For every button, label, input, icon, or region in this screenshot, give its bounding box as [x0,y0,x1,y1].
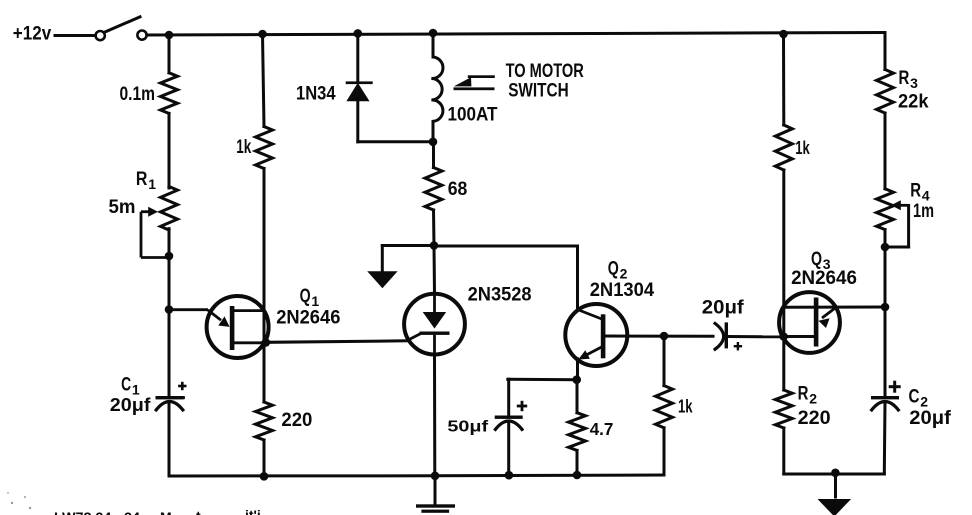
svg-text:LW78 24 - 24: LW78 24 - 24 [54,509,140,515]
svg-text:1N34: 1N34 [296,83,336,105]
svg-text:20μf: 20μf [909,407,951,429]
svg-text:R: R [910,180,921,202]
svg-text:2N3528: 2N3528 [468,284,532,306]
svg-text:100AT: 100AT [448,104,498,126]
svg-text:220: 220 [281,409,312,431]
svg-text:1k: 1k [795,138,810,158]
svg-text:SWITCH: SWITCH [508,79,569,101]
svg-text:1m: 1m [913,200,934,222]
svg-text:it'i: it'i [245,507,261,515]
svg-text:4.7: 4.7 [590,419,614,439]
svg-text:220: 220 [798,407,831,429]
svg-text:2: 2 [809,391,817,407]
svg-text:50μf: 50μf [447,419,489,436]
svg-text:1: 1 [148,176,156,192]
svg-text:1k: 1k [678,397,693,417]
svg-text:R: R [899,67,910,89]
svg-text:0.1m: 0.1m [120,83,156,105]
svg-text:3: 3 [910,75,918,91]
svg-text:t.: t. [196,508,205,515]
svg-text:C: C [121,374,131,396]
svg-text:R: R [136,168,148,190]
svg-text:68: 68 [448,178,468,200]
svg-text:20μf: 20μf [702,297,744,319]
svg-text:Q: Q [300,285,311,307]
svg-text:+12v: +12v [13,23,52,45]
svg-text:2N1304: 2N1304 [590,279,655,301]
svg-text:Q: Q [608,258,619,280]
svg-text:1k: 1k [236,136,251,158]
svg-text:2N2646: 2N2646 [791,267,857,289]
svg-text:R: R [798,383,809,405]
svg-text:M: M [160,509,172,515]
svg-text:C: C [909,386,920,408]
svg-text:22k: 22k [898,91,929,113]
svg-text:5m: 5m [109,196,136,218]
svg-text:2N2646: 2N2646 [276,307,340,329]
svg-text:20μf: 20μf [110,395,152,415]
